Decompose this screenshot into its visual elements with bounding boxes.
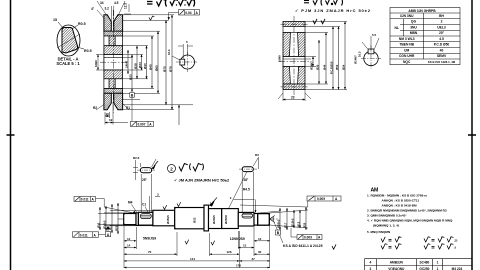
detail A leader R0.5 right <box>77 47 84 49</box>
gear right extension lines <box>305 22 347 90</box>
svg-text:0.009: 0.009 <box>304 236 312 240</box>
gear section body <box>283 22 305 90</box>
leader from keyseat detail2 to shaft <box>229 172 248 209</box>
svg-text:AMB3JN: AMB3JN <box>390 261 404 265</box>
svg-text:5N9/JS9: 5N9/JS9 <box>143 237 156 241</box>
circled 2 note <box>168 165 176 173</box>
pulley top groove extension lines <box>97 1 125 24</box>
svg-text:AMB 3JN GHRPB: AMB 3JN GHRPB <box>408 9 436 13</box>
svg-text:3NU: 3NU <box>410 25 417 29</box>
shaft bottom dims <box>124 226 270 268</box>
svg-text:R2.6: R2.6 <box>133 156 140 160</box>
gear top dims <box>313 19 325 24</box>
svg-text:Ø20: Ø20 <box>302 222 306 228</box>
svg-text:R3: R3 <box>255 153 259 157</box>
leader from bottom tolerance box to B datum <box>131 97 133 121</box>
svg-text:Ø15k5: Ø15k5 <box>166 215 170 224</box>
datum B box pulley <box>130 93 135 98</box>
svg-text:176: 176 <box>236 264 241 268</box>
svg-text:M4: M4 <box>128 201 133 205</box>
svg-text:5.5: 5.5 <box>372 33 377 37</box>
svg-text:20°: 20° <box>439 31 445 35</box>
detail A leader R0.5 top <box>72 25 78 29</box>
svg-text:0.011: 0.011 <box>81 198 89 202</box>
keyseat detail view 2 <box>239 167 257 172</box>
surface marks below shaft <box>185 240 215 245</box>
svg-text:R0.5: R0.5 <box>84 49 92 53</box>
svg-text:16H9: 16H9 <box>94 60 98 67</box>
svg-text:19: 19 <box>109 118 113 122</box>
datum triangle A shaft <box>106 226 110 230</box>
svg-text:QG: QG <box>411 20 417 24</box>
notes surface symbol rows <box>381 237 453 249</box>
svg-text:Ø54: Ø54 <box>341 64 345 70</box>
pulley section body <box>104 15 123 110</box>
svg-text:NQC: NQC <box>403 60 411 64</box>
svg-text:R2: R2 <box>93 106 97 110</box>
pulley bore band <box>104 55 123 71</box>
pulley bottom right leader <box>122 103 129 110</box>
svg-text:✓ PJM 3JN ZMAJR HrC 50±2: ✓ PJM 3JN ZMAJR HrC 50±2 <box>295 8 371 13</box>
finish check on pitch ext line <box>149 16 154 20</box>
svg-text:Ø50: Ø50 <box>335 64 339 70</box>
svg-text:Ø20h6: Ø20h6 <box>224 215 228 224</box>
pulley lower mirror <box>104 70 123 79</box>
svg-text:R1: R1 <box>126 106 130 110</box>
svg-text:Ø20k5: Ø20k5 <box>212 215 216 224</box>
frame left border <box>7 0 15 270</box>
keyseat detail view 1 <box>137 163 155 173</box>
svg-text:4. ✓ RQN NMB QNMQNB NQM, MQN B: 4. ✓ RQN NMB QNMQNB NQM, MQN BNQMN MQB R… <box>367 219 453 223</box>
svg-text:SC480: SC480 <box>420 261 430 265</box>
svg-text:0.011: 0.011 <box>80 233 88 237</box>
svg-text:R4.5: R4.5 <box>243 188 250 192</box>
svg-text:18.3: 18.3 <box>167 49 171 55</box>
pulley right extension lines <box>123 15 193 110</box>
pulley bore detail circle <box>176 52 197 72</box>
surface finish row pulley <box>147 0 195 7</box>
svg-text:(NQMMNQ 1, 3, 4): (NQMMNQ 1, 3, 4) <box>373 224 399 228</box>
svg-text:R0.5: R0.5 <box>78 22 86 26</box>
svg-text:16H9: 16H9 <box>278 55 282 62</box>
detail A leader 15 <box>58 22 63 28</box>
keyseat proj lines left <box>141 174 160 213</box>
shaft chamfer marks <box>124 208 270 229</box>
svg-text:126: 126 <box>227 250 232 254</box>
svg-text:12: 12 <box>243 244 247 248</box>
svg-text:4: 4 <box>370 261 372 265</box>
pulley left top leader <box>97 10 104 18</box>
shaft keyseat section2 <box>140 214 151 219</box>
tolerance frame pulley bottom <box>131 121 154 126</box>
svg-text:3.2: 3.2 <box>105 7 110 11</box>
gear centerlines <box>279 16 309 95</box>
svg-text:Ø20k5: Ø20k5 <box>276 219 280 228</box>
svg-text:Ø12: Ø12 <box>296 221 300 227</box>
svg-text:Ø75: Ø75 <box>162 66 166 72</box>
svg-text:SCALE 5 : 1: SCALE 5 : 1 <box>56 61 80 66</box>
svg-text:KS B ISO 1328-1, 4M: KS B ISO 1328-1, 4M <box>428 60 456 64</box>
svg-text:NL: NL <box>394 26 398 30</box>
gear bottom dim <box>278 90 311 102</box>
svg-text:Ø40: Ø40 <box>143 63 147 69</box>
frame right border <box>468 0 476 270</box>
svg-text:Ø34: Ø34 <box>138 62 142 68</box>
svg-text:ANHQN : KS B 0250-CT11: ANHQN : KS B 0250-CT11 <box>382 199 420 203</box>
svg-text:P.C.DØ50: P.C.DØ50 <box>329 61 333 74</box>
svg-text:2: 2 <box>441 20 443 24</box>
center hole mark <box>270 216 275 223</box>
shaft right vertical dims <box>280 207 306 230</box>
svg-text:30: 30 <box>258 250 262 254</box>
pulley centerlines <box>100 10 127 113</box>
svg-text:0.007: 0.007 <box>138 123 146 127</box>
tolerance frame pulley top <box>168 10 200 21</box>
svg-text:C1: C1 <box>142 203 146 207</box>
pulley bottom dims <box>105 102 128 125</box>
svg-text:Ø45: Ø45 <box>148 64 152 70</box>
svg-text:Ø65: Ø65 <box>154 65 158 71</box>
pulley bottom left leader R <box>96 104 105 110</box>
parts table <box>365 259 473 270</box>
svg-text:UEL3: UEL3 <box>437 25 446 29</box>
tolerance frame shaft right top <box>307 196 341 201</box>
svg-text:P.C.D Ø50: P.C.D Ø50 <box>434 43 450 47</box>
svg-text:1. RQNBDM - MQBMN : KS B ISO 2: 1. RQNBDM - MQBMN : KS B ISO 2768-m <box>367 194 427 198</box>
svg-text:12.5: 12.5 <box>124 3 128 9</box>
svg-text:3JN 3NU: 3JN 3NU <box>400 14 414 18</box>
svg-text:70: 70 <box>148 250 152 254</box>
pulley left dim <box>96 55 104 71</box>
gear bore detail <box>361 45 381 69</box>
svg-text:Ø44: Ø44 <box>322 64 326 70</box>
svg-text:Ø15k5: Ø15k5 <box>290 218 294 227</box>
spur gear table <box>390 8 460 65</box>
big surface mark gear <box>304 0 343 6</box>
detail view A ellipse <box>57 25 80 56</box>
svg-text:14: 14 <box>127 244 131 248</box>
svg-text:SEMV: SEMV <box>437 54 447 58</box>
datum box B right <box>276 230 281 235</box>
svg-text:Ø12: Ø12 <box>96 222 100 228</box>
svg-text:12: 12 <box>127 237 131 241</box>
svg-text:34: 34 <box>100 1 104 5</box>
svg-text:Ø28: Ø28 <box>133 63 137 69</box>
svg-text:w: w <box>398 236 400 239</box>
collar chamfer arrow <box>209 201 215 207</box>
svg-text:Ø22: Ø22 <box>114 225 118 231</box>
surface mark on section3 <box>163 201 214 209</box>
svg-text:Ø14H7: Ø14H7 <box>354 55 358 64</box>
svg-text:UM: UM <box>404 48 409 52</box>
svg-text:Ø30: Ø30 <box>315 64 319 70</box>
svg-text:Ø79: Ø79 <box>168 66 172 72</box>
svg-text:12: 12 <box>258 237 262 241</box>
shaft right ext lines <box>254 210 308 228</box>
shaft keyseat right <box>242 213 253 218</box>
svg-text:10: 10 <box>106 112 110 116</box>
svg-text:0.04: 0.04 <box>185 11 191 15</box>
bore detail dims <box>172 44 193 60</box>
svg-text:12N9/JS9: 12N9/JS9 <box>230 237 245 241</box>
tolerance frame shaft left <box>74 197 136 214</box>
svg-text:1: 1 <box>437 261 439 265</box>
svg-text:CGN UHR: CGN UHR <box>399 54 415 58</box>
svg-text:Ø15k5: Ø15k5 <box>102 220 106 229</box>
svg-text:40: 40 <box>440 48 444 52</box>
svg-text:✓ JM AJN ZMAJRN HrC 50±2: ✓ JM AJN ZMAJRN HrC 50±2 <box>174 178 230 183</box>
svg-text:0.009: 0.009 <box>317 197 325 201</box>
svg-text:2. BNMQR NMQNBNM BNQMNMB 1x45°: 2. BNMQR NMQNBNM BNQMNMB 1x45°, BNQMNM R… <box>367 209 447 213</box>
shaft centerline <box>118 218 278 220</box>
svg-text:144: 144 <box>190 257 195 261</box>
svg-text:Ø22: Ø22 <box>193 217 197 223</box>
tolerance frame shaft left lower <box>73 232 106 238</box>
svg-text:Ø20: Ø20 <box>128 74 132 80</box>
svg-text:4.5: 4.5 <box>114 1 119 5</box>
svg-text:3. QMN BNMQNMB 0.2x45°: 3. QMN BNMQNMB 0.2x45° <box>367 214 407 218</box>
svg-text:28°: 28° <box>244 178 250 182</box>
svg-text:37: 37 <box>252 257 256 261</box>
svg-text:KS A ISO 6411-1 A 2/4.25: KS A ISO 6411-1 A 2/4.25 <box>283 244 323 248</box>
svg-text:Ø17: Ø17 <box>283 222 287 228</box>
pulley dim labels rotated <box>124 60 172 80</box>
svg-text:5. MNQ BNQMN: 5. MNQ BNQMN <box>367 230 391 234</box>
shaft left dim comb <box>98 210 153 226</box>
svg-text:Ø14H7: Ø14H7 <box>309 61 313 70</box>
svg-text:ANBQN : KS B 0418-BM: ANBQN : KS B 0418-BM <box>382 204 417 208</box>
svg-text:2: 2 <box>170 166 173 171</box>
svg-text:TBEN NB: TBEN NB <box>399 43 414 47</box>
shaft rotated diameter labels <box>166 215 228 224</box>
svg-text:BH: BH <box>439 14 444 18</box>
svg-text:14H7: 14H7 <box>124 60 128 68</box>
svg-text:MBN: MBN <box>410 31 418 35</box>
svg-text:NM 3 WL3: NM 3 WL3 <box>399 37 415 41</box>
svg-text:23: 23 <box>291 96 295 100</box>
svg-text:4.5: 4.5 <box>439 37 444 41</box>
pulley top right small dim <box>124 4 131 14</box>
svg-text:15: 15 <box>53 18 57 22</box>
pulley right vertical dim lines <box>128 15 179 125</box>
gear right vertical dims <box>313 22 345 90</box>
svg-text:16.3: 16.3 <box>358 51 362 57</box>
pulley keyway line <box>104 56 123 58</box>
svg-text:25°: 25° <box>142 178 148 182</box>
tolerance frame shaft right bottom <box>297 235 322 240</box>
shaft body <box>124 205 258 231</box>
